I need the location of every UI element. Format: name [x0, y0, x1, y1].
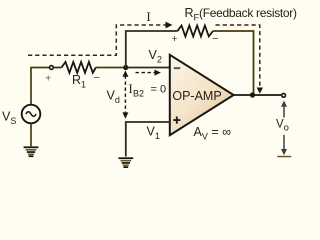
- minus symbol inside op-amp: [174, 67, 180, 69]
- svg-text:+: +: [171, 33, 177, 45]
- ground (VS): [24, 146, 39, 157]
- svg-text:−: −: [212, 33, 218, 45]
- ground (middle): [118, 157, 133, 168]
- output terminal (open circle): [282, 93, 286, 97]
- svg-text:OP-AMP: OP-AMP: [172, 89, 221, 103]
- wire from Vs up to R1 node: [31, 68, 49, 105]
- plus symbol inside op-amp: [173, 117, 180, 124]
- wire VS down to ground: [30, 123, 32, 146]
- wire junction up to feedback branch: [126, 31, 178, 68]
- resistor RF zigzag: [178, 26, 214, 37]
- sine symbol inside VS: [26, 112, 36, 117]
- dashed Vd double arrow: [124, 76, 126, 115]
- svg-text:B2: B2: [133, 89, 144, 99]
- wire node to R1: [54, 67, 62, 69]
- Vo measurement arrows: [283, 104, 285, 150]
- wire non-inverting input: [126, 122, 170, 157]
- output wire apex to terminal: [234, 94, 282, 96]
- wire R1 to junction: [96, 67, 126, 69]
- dashed current path (right) with down arrow: [216, 25, 260, 89]
- resistor R1 zigzag: [62, 62, 96, 73]
- node (open circle) after Vs: [50, 66, 54, 70]
- dashed arrow IB2: [136, 72, 156, 74]
- arrowhead of current I: [166, 22, 173, 29]
- wire RF to output corner and down: [213, 31, 254, 95]
- svg-text:+: +: [45, 72, 51, 84]
- wire junction to inverting input: [126, 67, 170, 69]
- junction dot (output node): [250, 92, 255, 97]
- svg-text:−: −: [93, 72, 99, 84]
- ground reference bar (right): [277, 156, 291, 158]
- svg-text:I: I: [146, 9, 150, 24]
- source VS circle: [22, 105, 41, 124]
- op-amp U1 triangle: [170, 55, 234, 135]
- svg-text:= 0: = 0: [151, 84, 167, 96]
- junction dot (inverting input node): [123, 65, 128, 70]
- dashed current path I (left): [28, 25, 167, 55]
